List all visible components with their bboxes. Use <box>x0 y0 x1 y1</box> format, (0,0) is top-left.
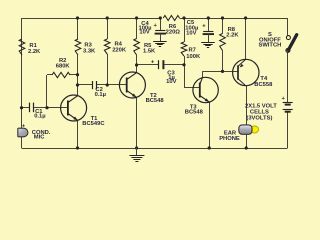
condenser mic symbol <box>18 128 28 137</box>
capacitor C5 plus sign <box>202 23 206 29</box>
node earphone at rail <box>245 146 248 149</box>
svg-text:+: + <box>22 124 25 130</box>
capacitor C3 plates (electrolytic horizontal) <box>159 60 164 69</box>
svg-text:0.1µ: 0.1µ <box>34 113 45 119</box>
wire T1 emitter to ground rail <box>77 120 79 148</box>
earphone symbol <box>239 125 259 134</box>
svg-text:BC549C: BC549C <box>82 121 105 127</box>
svg-text:1.5K: 1.5K <box>143 49 156 55</box>
transistor T2 <box>119 72 145 98</box>
capacitor C4 label <box>138 21 151 36</box>
svg-text:+: + <box>202 23 206 29</box>
wire C4 branch <box>160 18 162 31</box>
svg-text:10V: 10V <box>139 30 149 36</box>
svg-text:220Ω: 220Ω <box>166 30 181 36</box>
svg-text:2.2K: 2.2K <box>28 49 41 55</box>
capacitor C5 label <box>185 20 198 36</box>
svg-text:100K: 100K <box>186 54 201 60</box>
wire R4 vertical <box>107 18 109 85</box>
resistor R6 (inline top rail) <box>163 16 179 21</box>
ground (main, below T2 emitter) <box>129 148 144 162</box>
node top rail at C5 <box>207 16 210 19</box>
svg-text:(3VOLTS): (3VOLTS) <box>246 115 272 121</box>
wire C5 branch <box>208 18 210 32</box>
switch S symbol <box>286 35 297 53</box>
wire R7 vertical <box>184 18 186 65</box>
resistor R8 <box>220 34 226 51</box>
capacitor C1 plates <box>30 103 34 113</box>
resistor R3 label <box>83 43 96 55</box>
node mic/C1 <box>20 106 23 109</box>
mic label <box>32 130 51 140</box>
transistor T1 <box>61 95 87 121</box>
resistor R2 (horizontal) <box>52 72 70 77</box>
resistor R5 label <box>143 43 156 55</box>
capacitor C5 plates (electrolytic to ground) <box>203 32 214 43</box>
node T2 emitter / main ground at rail <box>135 146 138 149</box>
svg-text:220K: 220K <box>112 47 127 53</box>
node top rail at C4 <box>159 16 162 19</box>
earphone label <box>219 131 240 142</box>
svg-text:BC548: BC548 <box>146 98 165 104</box>
capacitor C2 label <box>95 87 106 98</box>
resistor R7 <box>181 42 187 56</box>
wire R3/T1-collector vertical <box>77 18 79 96</box>
resistor R4 <box>104 39 110 54</box>
svg-text:R7: R7 <box>189 48 196 54</box>
node R2 right on collector wire <box>76 73 79 76</box>
node R5 bottom / T2 collector / C3 <box>135 63 138 66</box>
wire left vertical (mic/R1 branch) <box>21 18 23 148</box>
resistor R7 label <box>186 48 201 61</box>
wire switch/battery right vertical <box>287 18 289 148</box>
node top rail at R5 <box>135 16 138 19</box>
node R4 bottom / T2 base <box>106 83 109 86</box>
resistor R3 <box>75 39 81 55</box>
battery plus sign <box>282 96 285 102</box>
capacitor C2 plates <box>93 81 97 89</box>
svg-text:SWITCH: SWITCH <box>258 43 281 49</box>
wire T2 emitter to ground rail <box>136 97 138 148</box>
transistor T2 label <box>146 93 165 104</box>
resistor R4 label <box>112 42 127 54</box>
resistor R1 label <box>28 43 41 55</box>
resistor R2 label <box>56 58 71 69</box>
svg-text:10V: 10V <box>166 79 176 85</box>
svg-text:+: + <box>282 96 285 102</box>
wire R7/C3 node down to T3 base <box>184 65 200 88</box>
svg-text:MIC: MIC <box>34 134 45 140</box>
node R2/C1/T1 base <box>45 106 48 109</box>
capacitor C3 label <box>166 71 176 86</box>
wire C2 horizontal <box>78 84 127 86</box>
resistor R5 <box>134 39 140 56</box>
svg-text:3.3K: 3.3K <box>83 49 96 55</box>
svg-text:10V: 10V <box>186 30 196 36</box>
wire T3 collector link <box>202 71 222 77</box>
wire bottom ground rail <box>22 148 288 150</box>
svg-text:+: + <box>154 23 158 29</box>
resistor R6 label <box>166 24 181 36</box>
node top rail at R4 <box>106 16 109 19</box>
wire C3 horizontal <box>137 64 184 66</box>
transistor T4 label <box>254 76 273 88</box>
svg-text:R1: R1 <box>29 43 37 49</box>
wire T4 base <box>223 71 238 73</box>
node T1 emitter at rail <box>76 146 79 149</box>
wire R8 vertical <box>222 18 224 71</box>
capacitor C4 plates (electrolytic to ground) <box>155 31 166 42</box>
transistor T3 label <box>185 104 204 115</box>
resistor R8 label <box>226 27 239 39</box>
transistor T1 label <box>82 116 105 127</box>
svg-text:2.2K: 2.2K <box>226 33 239 39</box>
node T3 emitter at rail <box>208 146 211 149</box>
ground for C5 <box>201 43 215 48</box>
node top rail at R8 <box>221 16 224 19</box>
wire top positive rail left section <box>22 18 161 20</box>
svg-text:0.1µ: 0.1µ <box>95 92 106 98</box>
node C2 left / T1 collector <box>76 83 79 86</box>
node top rail at T4 emitter <box>244 16 247 19</box>
capacitor C4 plus sign <box>154 23 158 29</box>
transistor T4 (PNP) <box>233 59 259 85</box>
svg-text:BC548: BC548 <box>185 110 204 116</box>
capacitor C1 label <box>34 109 45 120</box>
node top rail at R3 <box>76 16 79 19</box>
wire R2 ends <box>47 75 78 108</box>
battery symbol <box>283 103 293 112</box>
switch label <box>258 32 281 49</box>
node C3 right / R7 bottom <box>182 63 185 66</box>
resistor R1 <box>19 39 25 55</box>
wire T4 collector to earphone to rail <box>246 86 248 148</box>
node top rail at R7 <box>182 16 185 19</box>
transistor T3 <box>193 77 218 102</box>
capacitor C3 plus sign <box>151 59 155 65</box>
mic plus sign <box>22 124 25 130</box>
svg-text:BC558: BC558 <box>254 82 273 88</box>
ground for C4 <box>153 42 167 47</box>
wire R5 / T2 collector vertical <box>136 18 138 73</box>
wire top rail right section (after R6) <box>180 18 288 20</box>
node R8 bottom / T3 collector / T4 base <box>221 70 224 73</box>
battery label <box>245 104 277 122</box>
wire T4 emitter from rail <box>245 18 247 59</box>
wire T3 emitter to rail <box>209 102 211 148</box>
svg-text:680K: 680K <box>56 64 71 70</box>
svg-text:PHONE: PHONE <box>219 136 240 142</box>
wire C1 horizontal <box>22 107 68 109</box>
